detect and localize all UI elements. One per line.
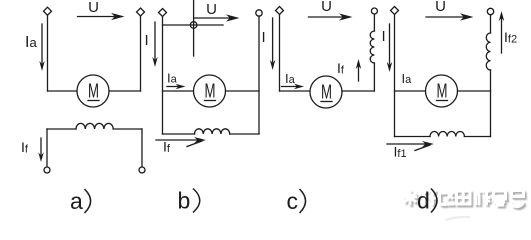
wire: d armature wire to motor bbox=[395, 90, 426, 92]
wire: c left vertical bbox=[279, 14, 281, 91]
motor U1 letter M bbox=[88, 81, 99, 103]
terminal c-left bbox=[276, 7, 284, 15]
wire: b right vertical bbox=[258, 16, 260, 134]
wire: c right vertical below coil bbox=[373, 63, 375, 91]
faint smudge under watermark bbox=[446, 217, 470, 220]
wire: c motor right to bend bbox=[342, 90, 374, 92]
svg-text:I: I bbox=[145, 32, 149, 49]
label d) bbox=[417, 188, 430, 214]
arrow If down (a) bbox=[40, 138, 42, 155]
wire: d right vertical above coil bbox=[490, 15, 492, 33]
arrow I down (between a and b) bbox=[154, 22, 156, 59]
label Ia (b) bbox=[167, 71, 178, 86]
wire: d bottom rail right bbox=[464, 136, 490, 138]
arrow Ia down (a) bbox=[41, 24, 43, 63]
wire: b bottom rail right bbox=[230, 133, 259, 135]
svg-text:Ia: Ia bbox=[25, 34, 37, 51]
label a) bbox=[70, 188, 83, 214]
label U (b) bbox=[206, 1, 217, 18]
motor U4 letter M bbox=[437, 81, 448, 103]
wire: d bottom rail left bbox=[395, 136, 431, 138]
label If2 (d) bbox=[504, 29, 517, 46]
svg-text:I: I bbox=[382, 28, 386, 45]
arrow U (c) bbox=[309, 16, 344, 18]
label If (a) bbox=[21, 139, 29, 156]
inductor Lsh (d shunt field winding) bbox=[430, 132, 464, 137]
arrow I down (between b and c) bbox=[272, 18, 274, 62]
terminal c-right bbox=[371, 8, 377, 14]
motor U2 underline bbox=[205, 100, 216, 102]
wire: a left vertical bbox=[47, 15, 49, 91]
svg-text:I: I bbox=[262, 29, 266, 46]
wire: a field left vertical bbox=[46, 129, 48, 167]
svg-text:If: If bbox=[163, 139, 171, 156]
svg-text:b: b bbox=[178, 188, 191, 214]
svg-text:M: M bbox=[437, 81, 448, 103]
svg-text:d: d bbox=[417, 188, 430, 214]
svg-text:a: a bbox=[70, 188, 83, 214]
label Ia (a) bbox=[25, 34, 37, 51]
motor U2 letter M bbox=[205, 81, 216, 103]
arrow I down (d) bbox=[389, 24, 391, 64]
terminal a-field-right bbox=[139, 167, 145, 173]
wire: b bottom rail left bbox=[163, 133, 195, 135]
terminal a-left bbox=[44, 7, 52, 15]
motor U2 circle bbox=[194, 75, 226, 107]
svg-text:M: M bbox=[321, 82, 332, 104]
label c) bbox=[287, 188, 299, 214]
terminal a-field-left bbox=[44, 167, 50, 173]
inductor Lse (c series field winding) bbox=[370, 31, 374, 63]
wire: a motor to right vertical bbox=[109, 90, 141, 92]
label b) bbox=[178, 188, 191, 214]
svg-text:M: M bbox=[88, 81, 99, 103]
wire: c armature wire to motor bbox=[280, 90, 311, 92]
wire: b branch to junction bbox=[163, 24, 224, 26]
label If (c) bbox=[337, 60, 345, 77]
arrow Ia (c) bbox=[282, 86, 298, 88]
label Ia (c) bbox=[285, 71, 296, 86]
wire: c right vertical above coil bbox=[373, 14, 375, 31]
label U (a) bbox=[88, 0, 99, 16]
svg-text:U: U bbox=[206, 1, 217, 18]
arrow U (b) bbox=[194, 17, 230, 19]
label I (d) bbox=[382, 28, 386, 45]
svg-text:M: M bbox=[205, 81, 216, 103]
wire: a right vertical bbox=[140, 16, 142, 91]
wire: d right vertical below coil bbox=[490, 70, 492, 137]
svg-text:If2: If2 bbox=[504, 29, 517, 46]
wire: b left vertical bbox=[162, 16, 164, 134]
watermark: faint white/gray CJK-style text block bbox=[405, 192, 526, 209]
label U (d) bbox=[435, 0, 446, 15]
motor U3 circle bbox=[310, 76, 342, 108]
svg-text:c: c bbox=[287, 188, 299, 214]
terminal d-left bbox=[391, 7, 399, 15]
motor U4 circle bbox=[426, 75, 458, 107]
svg-text:If: If bbox=[337, 60, 345, 77]
label I (between b and c) bbox=[262, 29, 266, 46]
terminal a-right bbox=[137, 8, 145, 16]
motor U4 underline bbox=[437, 100, 448, 102]
svg-text:Ia: Ia bbox=[402, 71, 413, 86]
motor U3 underline bbox=[321, 101, 332, 103]
svg-text:Ia: Ia bbox=[167, 71, 178, 86]
svg-text:U: U bbox=[435, 0, 446, 15]
motor U1 circle bbox=[77, 75, 109, 107]
terminal b-left bbox=[159, 9, 167, 17]
wire: a bottom-left horizontal to motor bbox=[48, 90, 78, 92]
terminal d-right bbox=[487, 8, 493, 14]
arrow If up (c) bbox=[358, 66, 360, 81]
label Ia (d) bbox=[402, 71, 413, 86]
wire: d motor to right vertical bbox=[458, 90, 491, 92]
terminal b-right bbox=[256, 10, 262, 16]
wire: a field top rail left bbox=[47, 128, 76, 130]
wire: d left vertical bbox=[394, 14, 396, 137]
wire: b armature wire to motor bbox=[163, 90, 194, 92]
svg-text:U: U bbox=[88, 0, 99, 16]
arrow If1 (d) bbox=[387, 143, 426, 145]
wire: a field right vertical bbox=[141, 129, 143, 167]
motor U1 underline bbox=[88, 100, 99, 102]
arrow U (a) bbox=[78, 16, 116, 18]
label If (b) bbox=[163, 139, 171, 156]
arrow If2 up (d) bbox=[501, 18, 503, 53]
svg-text:Ia: Ia bbox=[285, 71, 296, 86]
junction node (b) bbox=[190, 22, 197, 29]
label I (between a and b) bbox=[145, 32, 149, 49]
motor U3 letter M bbox=[321, 82, 332, 104]
svg-text:If1: If1 bbox=[394, 144, 407, 161]
svg-text:If: If bbox=[21, 139, 29, 156]
label U (c) bbox=[321, 0, 332, 15]
inductor Lse (d series field winding) bbox=[486, 33, 490, 70]
inductor Lf (a field winding) bbox=[76, 123, 113, 129]
wire: b motor to right vertical bbox=[226, 90, 260, 92]
arrow If (b) bbox=[156, 139, 198, 141]
wire: a field top rail right bbox=[113, 128, 142, 130]
svg-text:U: U bbox=[321, 0, 332, 15]
arrow U (d) bbox=[426, 16, 464, 18]
inductor Lsh (b shunt field winding) bbox=[195, 129, 230, 134]
arrow Ia (b) bbox=[167, 86, 179, 88]
label If1 (d) bbox=[394, 144, 407, 161]
wire: b vertical stub through junction bbox=[193, 0, 195, 56]
